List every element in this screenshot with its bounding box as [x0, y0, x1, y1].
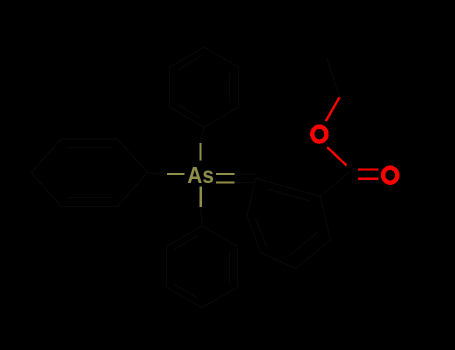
- ring 1 inner aromatic line top: [68, 147, 112, 149]
- ring 4 inner aromatic line bottom-right: [289, 233, 318, 256]
- bond As down stub (bright): [200, 187, 202, 207]
- C=O double bond lower line (red): [358, 178, 379, 180]
- phenyl ring 1 (left, dim): [31, 139, 147, 207]
- ester O1 label: [312, 127, 326, 142]
- ethyl terminal bond CH2-CH3 (dim): [327, 58, 340, 98]
- bond O1 to CH2 (red part): [326, 97, 340, 121]
- bond ring1 to As (dim part): [148, 173, 168, 175]
- bond ring2 to As (dim part): [200, 127, 204, 143]
- phenyl ring 2 (top, dim): [170, 47, 239, 127]
- ring 3 inner aromatic line top-left: [174, 236, 198, 250]
- bond As to ring3 (dim part): [201, 207, 202, 226]
- ring 4 inner aromatic line left: [256, 218, 267, 247]
- ring 2 inner aromatic line top-left: [178, 55, 202, 70]
- ring 2 inner aromatic line right: [229, 73, 231, 103]
- As=C double bond lower bright stub: [216, 182, 234, 184]
- bond As left stub (bright): [167, 173, 184, 175]
- C=O double bond upper line (red): [358, 168, 379, 170]
- bond O1 to carbonyl C (red): [327, 147, 346, 165]
- As=C double bond dim continuation lower: [235, 181, 256, 183]
- benzylidene ring 4 (right, dim): [247, 178, 331, 268]
- ring 4 inner aromatic line top: [268, 189, 310, 201]
- As=C double bond dim continuation upper: [235, 173, 256, 175]
- ring 3 inner aromatic line bottom-left: [174, 284, 198, 298]
- ester O2 label (carbonyl O): [383, 168, 397, 183]
- ring 3 inner aromatic line right: [228, 251, 230, 283]
- ring 2 inner aromatic line bottom-left: [178, 104, 201, 118]
- phenyl ring 3 (bottom, dim): [167, 226, 238, 308]
- bond ring4 to ester carbon (dim): [320, 173, 349, 197]
- ring 1 inner aromatic line bottom: [68, 197, 112, 199]
- bond As up stub (bright): [199, 143, 201, 161]
- As=C double bond upper bright stub: [216, 173, 234, 175]
- svg-text:As: As: [187, 162, 214, 188]
